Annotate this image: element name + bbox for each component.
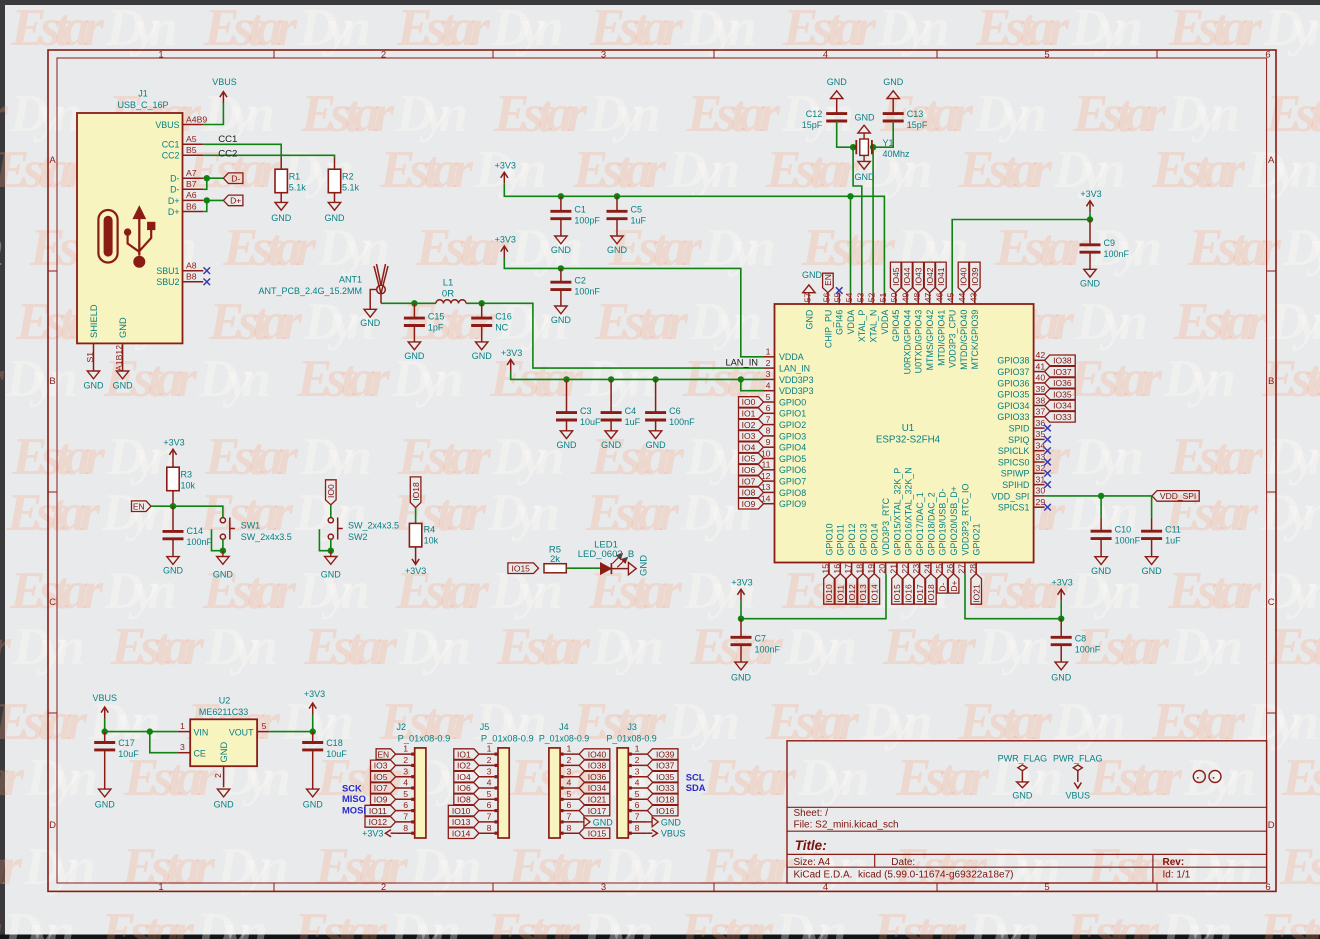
- J1 pin B8 (SBU2): [156, 272, 203, 288]
- power VBUS at J1: [212, 77, 237, 103]
- global label IO1 at J5 pin 1: [454, 749, 479, 760]
- U1 pin 24 (GPIO18/DAC_2): [926, 492, 936, 573]
- global label IO12 at J2 pin 7: [365, 817, 396, 828]
- capacitor C6 100nF: [645, 379, 695, 430]
- svg-text:GPIO0: GPIO0: [779, 397, 806, 407]
- no-connect U1 SPIWP: [1044, 470, 1051, 477]
- svg-text:41: 41: [1036, 361, 1046, 371]
- svg-text:3: 3: [601, 882, 606, 893]
- svg-text:GPIO11: GPIO11: [836, 524, 846, 555]
- J5 pin 8: [479, 823, 498, 833]
- svg-text:4: 4: [566, 778, 571, 788]
- global label IO4: [739, 442, 764, 453]
- J3 pin 1: [628, 744, 647, 754]
- svg-text:IO33: IO33: [1053, 412, 1072, 422]
- svg-text:GPIO21: GPIO21: [972, 523, 982, 555]
- svg-text:GPIO45: GPIO45: [891, 310, 901, 342]
- ground at J1 GND: [113, 371, 134, 391]
- svg-text:Estar: Estar: [507, 838, 602, 896]
- capacitor C11 1uF: [1141, 518, 1181, 557]
- svg-text:Dyn: Dyn: [974, 85, 1047, 143]
- svg-text:31: 31: [1036, 474, 1046, 484]
- svg-text:GND: GND: [804, 310, 814, 330]
- svg-text:D-: D-: [938, 582, 948, 591]
- svg-text:U0TXD/GPIO43: U0TXD/GPIO43: [914, 310, 924, 374]
- svg-text:IO33: IO33: [656, 783, 675, 793]
- svg-text:Dyn: Dyn: [9, 85, 82, 143]
- svg-text:54: 54: [844, 292, 854, 302]
- svg-text:Dyn: Dyn: [602, 838, 675, 896]
- svg-text:1uF: 1uF: [625, 417, 641, 427]
- svg-text:ANT1: ANT1: [339, 275, 362, 285]
- svg-text:37: 37: [1036, 407, 1046, 417]
- svg-text:USB_C_16P: USB_C_16P: [117, 100, 168, 110]
- ground below C2: [551, 306, 572, 325]
- svg-text:GPIO5: GPIO5: [779, 454, 806, 464]
- svg-text:ANT_PCB_2.4G_15.2MM: ANT_PCB_2.4G_15.2MM: [258, 286, 362, 296]
- svg-text:1uF: 1uF: [1165, 536, 1181, 546]
- svg-text:IO35: IO35: [1053, 389, 1072, 399]
- wire rail1 to U1 pin54: [850, 196, 852, 292]
- svg-text:100nF: 100nF: [669, 417, 695, 427]
- svg-text:6: 6: [766, 403, 771, 413]
- global label IO0: [739, 397, 764, 408]
- svg-text:GND: GND: [855, 112, 876, 122]
- ground at J3 pin7: [647, 817, 681, 827]
- svg-text:+3V3: +3V3: [405, 566, 426, 576]
- ground below C18: [303, 789, 324, 809]
- svg-text:P_01x08-0.9: P_01x08-0.9: [398, 733, 451, 743]
- svg-text:Estar: Estar: [0, 693, 88, 751]
- svg-text:Dyn: Dyn: [977, 618, 1050, 676]
- U1 pin 34 (SPICLK): [998, 441, 1046, 457]
- J5 pin 2: [479, 755, 498, 765]
- svg-text:IO45: IO45: [891, 267, 901, 286]
- svg-text:D-: D-: [170, 174, 179, 184]
- resistor R5 2k: [544, 545, 566, 573]
- svg-text:Estar: Estar: [1068, 350, 1163, 408]
- U1 pin 14 (GPIO9): [761, 494, 806, 510]
- J4 pin 2: [560, 755, 579, 765]
- svg-text:Dyn: Dyn: [101, 484, 174, 542]
- ground below C1: [551, 236, 572, 255]
- svg-text:100nF: 100nF: [755, 645, 781, 655]
- global label IO34 at J4 pin 4: [579, 783, 610, 794]
- ground above C13: [883, 77, 904, 98]
- svg-text:P_01x08-0.9: P_01x08-0.9: [606, 733, 656, 743]
- svg-text:IO4: IO4: [742, 442, 756, 452]
- svg-text:Dyn: Dyn: [491, 0, 564, 57]
- U1 bottom pin numbers: [821, 564, 978, 574]
- junction C10: [1098, 493, 1104, 499]
- junction CE branch: [147, 728, 153, 734]
- global label IO1: [739, 408, 764, 419]
- svg-text:IO17: IO17: [588, 806, 607, 816]
- global label IO0: [326, 480, 337, 505]
- global label IO17 at J4 pin 6: [579, 805, 610, 816]
- svg-text:Estar: Estar: [585, 484, 680, 542]
- U1 pin 26 (GPIO20/USB_D+): [949, 486, 959, 573]
- global label IO34: [1045, 400, 1076, 411]
- U1 pin 15 (GPIO10): [824, 523, 834, 573]
- svg-text:2: 2: [635, 755, 640, 765]
- U1 pin 46 (MTDI/GPIO41): [936, 293, 946, 366]
- svg-text:Dyn: Dyn: [202, 85, 275, 143]
- svg-text:SPIWP: SPIWP: [1001, 469, 1030, 479]
- J1 pin A5 (CC1): [162, 134, 204, 150]
- svg-text:D: D: [49, 820, 56, 831]
- U1 pin 10 (GPIO5): [761, 448, 806, 464]
- ground right of LED1: [628, 555, 649, 576]
- svg-text:IO18: IO18: [926, 584, 936, 603]
- svg-text:VBUS: VBUS: [155, 120, 179, 130]
- junction D+: [204, 197, 210, 203]
- svg-text:SPID: SPID: [1009, 424, 1030, 434]
- svg-text:GND: GND: [607, 245, 628, 255]
- svg-text:Dyn: Dyn: [216, 838, 289, 896]
- J4 pin 7: [560, 812, 579, 822]
- U1 pin 33 (SPICS0): [998, 452, 1046, 468]
- svg-text:Estar: Estar: [1151, 693, 1246, 751]
- svg-text:EN: EN: [377, 749, 389, 759]
- svg-text:Estar: Estar: [590, 428, 685, 486]
- svg-text:Dyn: Dyn: [205, 618, 278, 676]
- svg-text:SBU2: SBU2: [156, 277, 179, 287]
- svg-text:GND: GND: [551, 315, 572, 325]
- svg-text:R3: R3: [181, 470, 193, 480]
- svg-text:L1: L1: [443, 278, 454, 289]
- svg-text:5: 5: [262, 721, 267, 731]
- J2 pin 6: [396, 800, 415, 810]
- junction C17: [102, 728, 108, 734]
- svg-text:GPIO1: GPIO1: [779, 409, 806, 419]
- global label EN above U1 pin56: [823, 273, 834, 293]
- svg-text:D+: D+: [168, 196, 180, 206]
- svg-text:Dyn: Dyn: [667, 693, 740, 751]
- no-connect U1 pin55: [836, 287, 843, 294]
- svg-text:B: B: [49, 376, 55, 387]
- ground above C12: [827, 77, 848, 98]
- svg-text:57: 57: [802, 292, 812, 302]
- svg-text:Estar: Estar: [872, 903, 967, 939]
- U1 pin 55 (GPI46): [835, 293, 845, 335]
- global label IO11: [835, 574, 846, 605]
- svg-text:Dyn: Dyn: [395, 85, 468, 143]
- wire +3V3 rail2 to U1 pin1: [504, 258, 763, 357]
- svg-text:Estar: Estar: [1258, 903, 1320, 939]
- svg-text:Estar: Estar: [1072, 85, 1167, 143]
- svg-text:VIN: VIN: [194, 727, 209, 737]
- svg-text:IO8: IO8: [457, 795, 471, 805]
- svg-text:Estar: Estar: [1167, 562, 1262, 620]
- svg-text:3: 3: [487, 766, 492, 776]
- J1 pin S1 (SHIELD): [85, 304, 99, 371]
- svg-text:CHIP_PU: CHIP_PU: [823, 310, 833, 348]
- svg-text:GND: GND: [325, 213, 346, 223]
- wire +3V3 stem U2: [312, 715, 314, 732]
- global label IO14: [869, 574, 880, 605]
- svg-text:2: 2: [766, 358, 771, 368]
- svg-text:Estar: Estar: [203, 0, 298, 57]
- switch SW2: [328, 518, 399, 543]
- global label IO13 at J5 pin 7: [448, 817, 479, 828]
- svg-text:Estar: Estar: [1169, 428, 1264, 486]
- global label IO37 at J3 pin 2: [647, 760, 678, 771]
- svg-text:0R: 0R: [442, 289, 454, 300]
- svg-text:23: 23: [911, 564, 921, 574]
- svg-text:IO10: IO10: [452, 806, 471, 816]
- global label IO9: [739, 498, 764, 509]
- svg-text:IO17: IO17: [915, 584, 925, 603]
- J4 pin 4: [560, 778, 579, 788]
- power +3V3 at R3: [163, 438, 184, 461]
- wire C11 stem: [1151, 496, 1153, 518]
- svg-text:38: 38: [1036, 395, 1046, 405]
- svg-text:IO37: IO37: [1053, 367, 1072, 377]
- antenna ANT1: [258, 264, 388, 303]
- ground below C10: [1091, 557, 1112, 576]
- svg-text:16: 16: [832, 564, 842, 574]
- svg-text:IO38: IO38: [1053, 356, 1072, 366]
- power flag PWR_FLAG VBUS: [1053, 754, 1103, 801]
- J3 pin 6: [628, 800, 647, 810]
- U1 pin 12 (GPIO7): [761, 471, 806, 487]
- svg-text:GPIO37: GPIO37: [997, 367, 1029, 377]
- svg-text:15pF: 15pF: [907, 120, 928, 130]
- svg-text:Estar: Estar: [0, 838, 23, 896]
- svg-text:GND: GND: [1012, 791, 1033, 801]
- svg-text:Dyn: Dyn: [5, 350, 78, 408]
- global label IO4 at J5 pin 3: [454, 771, 479, 782]
- svg-text:1: 1: [766, 347, 771, 357]
- svg-text:Dyn: Dyn: [967, 903, 1040, 939]
- svg-text:Dyn: Dyn: [1089, 219, 1162, 277]
- capacitor C2 100nF: [550, 268, 600, 306]
- U1 pin 47 (MTMS/GPIO42): [925, 293, 935, 371]
- svg-text:C5: C5: [631, 205, 643, 215]
- node CC2 label: [218, 148, 237, 159]
- svg-text:U2: U2: [219, 696, 231, 706]
- net class SCL: [686, 772, 705, 783]
- global label IO39 at J3 pin 1: [647, 749, 678, 760]
- svg-text:Estar: Estar: [1187, 219, 1282, 277]
- svg-text:VDD3P3: VDD3P3: [779, 375, 814, 385]
- svg-text:Dyn: Dyn: [487, 484, 560, 542]
- svg-text:Dyn: Dyn: [1163, 350, 1236, 408]
- capacitor C10 100nF: [1091, 518, 1141, 557]
- svg-text:GND: GND: [731, 673, 752, 683]
- U1 pin 41 (GPIO37): [997, 361, 1045, 377]
- junction rail3 C3: [563, 376, 569, 382]
- svg-text:GND: GND: [1080, 278, 1101, 288]
- global label IO12: [846, 574, 857, 605]
- ground below C5: [607, 236, 628, 255]
- svg-text:55: 55: [833, 292, 843, 302]
- node CC1 label: [218, 134, 237, 145]
- svg-text:GND: GND: [472, 351, 493, 361]
- svg-text:D+: D+: [949, 580, 959, 591]
- no-connect U1 SPICS0: [1044, 459, 1051, 466]
- svg-text:Estar: Estar: [415, 219, 510, 277]
- svg-text:Dyn: Dyn: [388, 903, 461, 939]
- junction rail2 C2: [558, 265, 564, 271]
- U1 pin 9 (GPIO4): [764, 437, 807, 453]
- capacitor C14 100nF: [163, 506, 213, 556]
- capacitor C5 1uF: [607, 196, 647, 236]
- svg-text:Estar: Estar: [293, 903, 388, 939]
- capacitor C9 100nF: [1080, 220, 1130, 270]
- svg-text:C10: C10: [1115, 525, 1132, 535]
- svg-text:Estar: Estar: [0, 85, 9, 143]
- connector J4 P_01x08-0.9 body: [539, 722, 589, 838]
- svg-text:Estar: Estar: [1173, 293, 1268, 351]
- svg-text:36: 36: [1036, 418, 1046, 428]
- svg-text:7: 7: [635, 812, 640, 822]
- svg-text:Estar: Estar: [121, 838, 216, 896]
- svg-text:GND: GND: [639, 555, 650, 576]
- svg-text:GND: GND: [883, 77, 904, 87]
- svg-text:GND: GND: [551, 245, 572, 255]
- global label IO14 at J5 pin 8: [448, 828, 479, 839]
- svg-text:35: 35: [1036, 429, 1046, 439]
- svg-text:Estar: Estar: [392, 484, 487, 542]
- junction rail3 pin4 branch: [738, 376, 744, 382]
- wire +3V3 rail3 to U1 pin3: [511, 371, 764, 380]
- svg-text:+3V3: +3V3: [495, 235, 516, 245]
- svg-text:Dyn: Dyn: [689, 293, 762, 351]
- svg-text:2: 2: [381, 49, 386, 60]
- svg-text:IO21: IO21: [588, 795, 607, 805]
- svg-text:1uF: 1uF: [631, 216, 647, 226]
- svg-text:53: 53: [855, 292, 865, 302]
- svg-text:J5: J5: [480, 722, 490, 732]
- svg-text:B8: B8: [186, 272, 197, 282]
- svg-text:GND: GND: [303, 800, 324, 810]
- svg-text:Dyn: Dyn: [409, 838, 482, 896]
- svg-text:IO3: IO3: [742, 431, 756, 441]
- junction antenna/C15: [411, 300, 417, 306]
- svg-text:C18: C18: [326, 738, 343, 748]
- svg-text:GND: GND: [557, 440, 578, 450]
- svg-text:Dyn: Dyn: [1075, 293, 1148, 351]
- svg-text:IO16: IO16: [656, 806, 675, 816]
- svg-text:Estar: Estar: [314, 838, 409, 896]
- svg-text:IO0: IO0: [742, 397, 756, 407]
- svg-text:IO39: IO39: [656, 749, 675, 759]
- svg-text:11: 11: [761, 460, 770, 470]
- wire D-: [203, 177, 223, 179]
- no-connect U1 SPICS1: [1044, 504, 1051, 511]
- svg-text:GND: GND: [827, 77, 848, 87]
- power flag PWR_FLAG GND: [998, 754, 1048, 801]
- U1 pin 54 (VDDA): [846, 293, 856, 335]
- wire VBUS J1: [203, 103, 223, 125]
- svg-text:Estar: Estar: [303, 618, 398, 676]
- svg-text:Sheet: /: Sheet: /: [794, 808, 829, 819]
- svg-text:GPIO36: GPIO36: [997, 378, 1029, 388]
- svg-text:SPIQ: SPIQ: [1008, 435, 1029, 445]
- svg-text:KiCad E.D.A. kicad (5.99.0-11: KiCad E.D.A. kicad (5.99.0-11674-g69322a…: [794, 870, 1014, 881]
- junction rail1 C1: [558, 193, 564, 199]
- wire IO0 to SW2: [330, 505, 332, 518]
- connector J5 P_01x08-0.9 body: [480, 722, 534, 838]
- svg-text:PWR_FLAG: PWR_FLAG: [1053, 754, 1103, 764]
- wire U1 to C7: [741, 574, 886, 619]
- svg-text:IO38: IO38: [588, 761, 607, 771]
- svg-text:VDD_SPI: VDD_SPI: [1160, 491, 1196, 501]
- svg-text:Dyn: Dyn: [581, 903, 654, 939]
- svg-text:4: 4: [403, 778, 408, 788]
- svg-text:5.1k: 5.1k: [342, 183, 360, 193]
- svg-text:10k: 10k: [424, 536, 439, 546]
- svg-text:IO44: IO44: [902, 267, 912, 286]
- svg-text:4: 4: [823, 49, 828, 60]
- capacitor C3 10uF: [556, 379, 601, 430]
- svg-text:Id: 1/1: Id: 1/1: [1163, 870, 1191, 881]
- U1 pin 45 (VDD3P3_CPU): [948, 293, 958, 368]
- node LAN_IN label: [725, 358, 758, 368]
- svg-text:18: 18: [855, 564, 865, 574]
- ground below C7: [731, 662, 752, 682]
- svg-text:GND: GND: [360, 318, 381, 328]
- svg-text:IO7: IO7: [374, 783, 388, 793]
- U1 pin 27 (VDD3P3_RTC_IO): [960, 484, 970, 574]
- ground below C8: [1051, 662, 1072, 682]
- global label IO13: [858, 574, 869, 605]
- junction C18: [310, 728, 316, 734]
- U1 pin 8 (GPIO3): [764, 426, 807, 442]
- global label IO18 at J3 pin 5: [647, 794, 678, 805]
- svg-text:Dyn: Dyn: [588, 85, 661, 143]
- svg-text:GPI46: GPI46: [835, 310, 845, 335]
- J2 pin 8: [396, 823, 415, 833]
- svg-text:1: 1: [158, 882, 163, 893]
- logo hole H2: [1209, 771, 1221, 783]
- svg-text:Dyn: Dyn: [1053, 693, 1126, 751]
- svg-text:Dyn: Dyn: [1167, 85, 1240, 143]
- svg-text:Dyn: Dyn: [684, 0, 757, 57]
- svg-text:Dyn: Dyn: [195, 903, 268, 939]
- svg-text:C15: C15: [428, 312, 445, 322]
- svg-text:Estar: Estar: [486, 903, 581, 939]
- svg-text:IO13: IO13: [452, 817, 471, 827]
- svg-text:5: 5: [635, 789, 640, 799]
- J1 pin B5 (CC2): [162, 145, 204, 161]
- U1 pin 44 (MTDD/GPIO40): [959, 293, 969, 370]
- svg-text:B: B: [1268, 376, 1274, 387]
- svg-text:10k: 10k: [181, 481, 196, 491]
- svg-text:2k: 2k: [550, 554, 560, 565]
- U1 pin 31 (SPIHD): [1002, 474, 1045, 490]
- svg-text:44: 44: [957, 292, 967, 302]
- svg-text:Dyn: Dyn: [25, 749, 98, 807]
- svg-text:VBUS: VBUS: [1066, 791, 1091, 801]
- global label IO40: [958, 262, 969, 293]
- U1 pin 3 (VDD3P3): [764, 369, 814, 385]
- svg-text:Dyn: Dyn: [317, 219, 390, 277]
- J2 pin 7: [396, 812, 415, 822]
- svg-text:Size: A4: Size: A4: [794, 857, 831, 868]
- global label IO11 at J2 pin 6: [365, 805, 396, 816]
- svg-text:30: 30: [1036, 486, 1046, 496]
- J2 pin 2: [396, 755, 415, 765]
- svg-text:IO21: IO21: [971, 584, 981, 603]
- svg-text:6: 6: [1265, 49, 1270, 60]
- svg-text:48: 48: [912, 292, 922, 302]
- svg-text:A: A: [49, 155, 56, 166]
- svg-text:C13: C13: [907, 109, 924, 119]
- U1 top pin numbers: [802, 292, 978, 302]
